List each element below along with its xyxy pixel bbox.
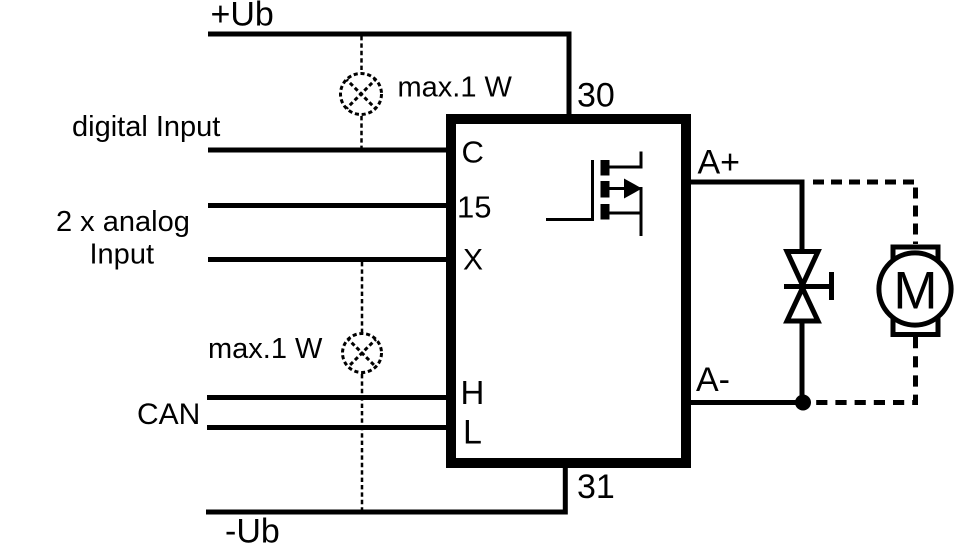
channel bar top (601, 160, 610, 176)
MOSFET Q1 (546, 152, 641, 237)
source lead (610, 212, 642, 215)
wire TVS to junction (800, 321, 805, 403)
junction dot (795, 395, 811, 411)
svg-text:X: X (463, 244, 483, 277)
channel bar middle (601, 181, 610, 198)
svg-text:30: 30 (577, 77, 615, 115)
svg-text:digital Input: digital Input (72, 111, 220, 143)
svg-text:2 x analog: 2 x analog (56, 206, 190, 238)
channel bar bottom (601, 204, 610, 220)
wire -Ub to pin 31 (206, 468, 565, 512)
wire lamp feed bottom (dashed) (361, 262, 364, 332)
svg-text:-Ub: -Ub (225, 513, 280, 544)
lamp bottom (dashed circle with X) (343, 334, 382, 373)
gate lead and gate line (546, 160, 593, 220)
svg-text:15: 15 (457, 190, 491, 225)
svg-text:+Ub: +Ub (211, 0, 274, 34)
wire A+ (691, 182, 802, 251)
TVS center bar (784, 284, 831, 289)
controller box U1 (451, 119, 686, 463)
wire analog input X (208, 257, 446, 262)
TVS diode D1 top triangle (787, 252, 818, 286)
lamp top (dashed circle with X) (341, 74, 382, 115)
wire CAN L (207, 425, 446, 430)
svg-text:A-: A- (696, 361, 730, 399)
body lead (610, 187, 629, 190)
svg-text:Input: Input (90, 239, 155, 271)
svg-text:max.1 W: max.1 W (398, 72, 513, 104)
motor M1 brush housing (893, 247, 938, 335)
motor M1 circle (879, 253, 951, 325)
drain lead (610, 152, 642, 168)
svg-text:A+: A+ (698, 144, 741, 182)
svg-text:L: L (463, 414, 482, 452)
wire analog input 15 (208, 203, 446, 208)
wire lamp feed top (dashed) (360, 36, 363, 72)
svg-text:M: M (893, 262, 937, 321)
wire A- (691, 400, 803, 405)
svg-text:max.1 W: max.1 W (208, 333, 323, 365)
TVS diode D1 bottom triangle (787, 288, 818, 321)
source vertical (640, 187, 643, 236)
svg-text:H: H (461, 374, 485, 411)
dashed motor link top (813, 182, 916, 244)
wire CAN H (207, 395, 446, 400)
wire digital input (208, 148, 446, 153)
svg-text:CAN: CAN (137, 398, 200, 431)
body arrow (624, 179, 642, 199)
wire +Ub to pin 30 (208, 34, 569, 114)
TVS right tick (829, 272, 834, 300)
dashed motor link bottom (816, 337, 916, 403)
svg-text:31: 31 (577, 468, 615, 506)
svg-text:C: C (462, 135, 484, 170)
